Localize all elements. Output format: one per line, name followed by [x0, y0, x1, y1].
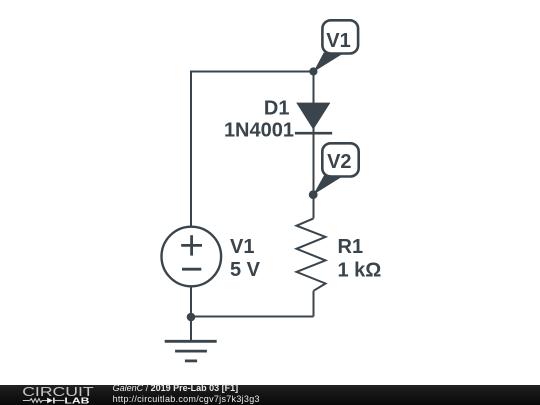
- svg-text:1N4001: 1N4001: [224, 119, 294, 141]
- svg-text:V2: V2: [327, 151, 351, 173]
- svg-text:1 kΩ: 1 kΩ: [338, 260, 382, 282]
- svg-text:5 V: 5 V: [230, 259, 261, 281]
- ground symbol: [165, 317, 217, 361]
- svg-text:V1: V1: [326, 30, 350, 52]
- svg-text:V1: V1: [230, 236, 254, 258]
- wire right vertical (diode branch): [313, 72, 315, 219]
- wire resistor bottom lead: [313, 291, 315, 317]
- node label V2 callout tail: [313, 175, 342, 195]
- node label V2 callout box: [322, 143, 358, 176]
- voltage source minus sign: [182, 268, 201, 271]
- node dot top (V1 net): [309, 67, 317, 75]
- svg-text:D1: D1: [264, 97, 290, 119]
- wire left vertical upper: [190, 71, 192, 228]
- node label V1 callout box: [322, 20, 358, 53]
- voltage source V1 circle: [162, 227, 222, 287]
- CircuitLab logo: [0, 385, 110, 405]
- logo diode: [47, 398, 53, 404]
- node label V1 callout tail: [313, 53, 342, 73]
- voltage source plus sign: [181, 235, 202, 255]
- diode D1 triangle: [296, 103, 330, 130]
- svg-text:LAB: LAB: [64, 397, 90, 405]
- wire top horizontal: [191, 71, 314, 73]
- wire bottom horizontal: [191, 316, 314, 318]
- footer line 1: author / title: [113, 384, 239, 393]
- node dot ground: [187, 313, 196, 322]
- node dot middle (V2 net): [309, 190, 318, 199]
- footer bar: [0, 385, 540, 405]
- footer line 2: url: [113, 395, 260, 404]
- logo resistor zigzag: [23, 399, 47, 403]
- svg-text:R1: R1: [338, 236, 364, 258]
- diode D1 cathode bar: [295, 132, 332, 135]
- wire left vertical lower: [190, 287, 192, 317]
- resistor R1 zigzag: [297, 218, 326, 290]
